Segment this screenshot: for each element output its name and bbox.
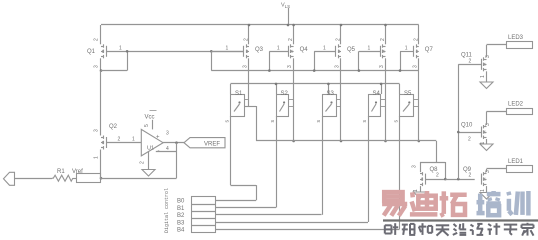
svg-text:1: 1	[323, 46, 326, 52]
svg-text:1: 1	[368, 46, 371, 52]
svg-text:Q1: Q1	[87, 49, 96, 55]
svg-text:5: 5	[144, 124, 150, 127]
svg-text:U1: U1	[147, 146, 154, 152]
svg-text:3: 3	[379, 65, 385, 68]
svg-text:2: 2	[469, 59, 472, 65]
svg-text:2: 2	[118, 137, 121, 143]
svg-text:1: 1	[480, 75, 486, 78]
svg-text:Q4: Q4	[300, 47, 309, 53]
svg-text:3: 3	[412, 165, 418, 168]
svg-text:S4: S4	[373, 91, 381, 97]
svg-text:3: 3	[412, 65, 418, 68]
svg-text:4: 4	[166, 146, 169, 152]
svg-text:S1: S1	[235, 91, 243, 97]
svg-text:Q2: Q2	[109, 124, 118, 130]
svg-text:1: 1	[94, 156, 100, 159]
svg-text:2: 2	[140, 161, 146, 164]
svg-text:S2: S2	[281, 91, 289, 97]
svg-text:S3: S3	[327, 91, 335, 97]
svg-text:Vcc: Vcc	[145, 115, 155, 121]
svg-text:Q3: Q3	[255, 47, 264, 53]
svg-text:Digital control: Digital control	[164, 188, 170, 233]
svg-text:2: 2	[468, 137, 471, 143]
svg-text:Q10: Q10	[461, 123, 473, 129]
svg-text:LED3: LED3	[508, 35, 524, 41]
svg-text:2: 2	[469, 173, 472, 179]
svg-text:B4: B4	[177, 228, 185, 234]
svg-text:B3: B3	[177, 220, 185, 226]
svg-text:Q5: Q5	[347, 47, 356, 53]
svg-text:B0: B0	[177, 199, 185, 205]
svg-text:2: 2	[380, 38, 386, 41]
svg-text:3: 3	[94, 129, 100, 132]
svg-text:2: 2	[436, 173, 439, 179]
svg-text:3: 3	[335, 65, 341, 68]
svg-text:2: 2	[94, 38, 100, 41]
svg-text:1: 1	[119, 46, 122, 52]
svg-text:3: 3	[243, 65, 249, 68]
svg-text:+: +	[156, 135, 160, 141]
svg-text:2: 2	[413, 38, 419, 41]
svg-text:B1: B1	[177, 206, 185, 212]
svg-text:LED1: LED1	[508, 159, 524, 165]
svg-text:B2: B2	[177, 213, 185, 219]
svg-text:1: 1	[480, 189, 486, 192]
svg-text:1: 1	[132, 137, 135, 143]
svg-text:3: 3	[94, 65, 100, 68]
svg-text:3: 3	[287, 65, 293, 68]
svg-text:VREF: VREF	[204, 142, 220, 148]
svg-text:2: 2	[336, 38, 342, 41]
svg-text:1: 1	[277, 46, 280, 52]
svg-text:3: 3	[485, 123, 491, 126]
svg-text:2: 2	[288, 38, 294, 41]
svg-text:1: 1	[413, 189, 419, 192]
svg-text:3: 3	[485, 55, 491, 58]
svg-text:3: 3	[485, 170, 491, 173]
svg-text:2: 2	[244, 38, 250, 41]
svg-text:1: 1	[405, 46, 408, 52]
svg-text:Vref: Vref	[72, 169, 83, 175]
svg-text:R1: R1	[57, 169, 65, 175]
svg-text:1: 1	[480, 142, 486, 145]
svg-text:LED2: LED2	[508, 102, 524, 108]
svg-text:1: 1	[226, 46, 229, 52]
svg-text:Q7: Q7	[425, 47, 434, 53]
svg-text:S5: S5	[404, 91, 412, 97]
svg-text:3: 3	[166, 131, 169, 137]
